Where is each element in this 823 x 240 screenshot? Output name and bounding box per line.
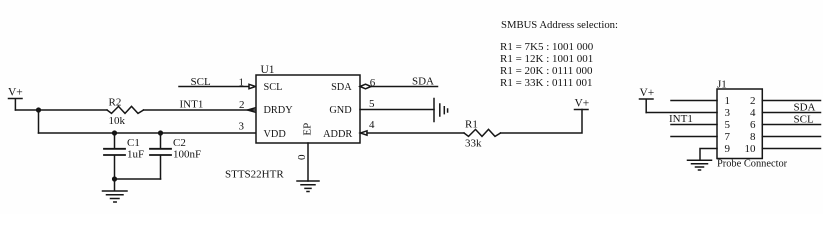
svg-text:R1 = 7K5 : 1001 000: R1 = 7K5 : 1001 000 <box>500 41 594 53</box>
wire J1 pin 4 (net SDA) <box>762 112 820 114</box>
svg-text:INT1: INT1 <box>669 113 693 125</box>
wire J1 pin 1 stub <box>671 100 717 102</box>
svg-text:1uF: 1uF <box>127 149 144 161</box>
svg-text:GND: GND <box>329 105 352 116</box>
ground (at J1 pin 9) <box>688 160 712 170</box>
svg-text:1: 1 <box>725 95 731 107</box>
wire V+ to J1 pin 3 <box>646 112 717 114</box>
svg-text:6: 6 <box>750 119 756 131</box>
wire J1 pin 2 stub <box>762 100 820 102</box>
wire C2 bottom to C1 bottom <box>115 178 161 180</box>
svg-text:R1: R1 <box>465 119 478 131</box>
wire VDD rail to U1 pin 3 <box>39 132 257 134</box>
svg-text:1: 1 <box>239 76 245 88</box>
node junction at C2 <box>158 130 163 135</box>
wire junction down to VDD rail <box>38 110 40 133</box>
svg-text:ADDR: ADDR <box>323 129 352 140</box>
svg-text:SCL: SCL <box>794 114 814 126</box>
svg-text:R2: R2 <box>109 97 122 109</box>
svg-text:SDA: SDA <box>412 75 434 87</box>
svg-text:8: 8 <box>750 131 756 143</box>
svg-text:33k: 33k <box>465 138 482 150</box>
svg-text:5: 5 <box>369 98 375 110</box>
node junction at V+ rail <box>36 107 41 112</box>
svg-text:V+: V+ <box>8 87 23 99</box>
node junction at C1 <box>112 130 117 135</box>
power V+ (at J1) <box>640 87 655 113</box>
svg-text:Probe Connector: Probe Connector <box>717 159 788 170</box>
svg-text:DRDY: DRDY <box>264 105 294 116</box>
wire ADDR to R1 <box>367 132 464 134</box>
svg-text:V+: V+ <box>575 98 590 110</box>
svg-text:STTS22HTR: STTS22HTR <box>225 169 284 181</box>
wire R1 to V+ <box>501 110 583 134</box>
wire R2 to U1 pin 2 <box>144 109 256 111</box>
svg-text:2: 2 <box>239 99 245 111</box>
ground (below U1 EP) <box>297 181 319 192</box>
pin 4 input arrow <box>361 131 368 135</box>
svg-text:4: 4 <box>750 107 756 119</box>
wire J1 pin 10 stub <box>762 148 820 150</box>
pin numbers J1 left column <box>725 95 731 155</box>
svg-text:R1 = 20K : 0111 000: R1 = 20K : 0111 000 <box>500 65 593 77</box>
node junction at C1 bottom <box>112 176 117 181</box>
IC U1 (STTS22HTR) box <box>256 75 360 143</box>
resistor R2 <box>107 106 144 113</box>
SMBUS address selection note <box>500 19 618 89</box>
connector J1 box <box>717 89 762 159</box>
svg-text:U1: U1 <box>261 64 275 76</box>
power V+ (left) <box>8 87 23 111</box>
wire INT1 to J1 pin 5 <box>671 124 717 126</box>
wire GND pin 5 to ground <box>360 109 434 111</box>
power V+ (at R1) <box>575 98 590 110</box>
svg-text:SDA: SDA <box>794 102 816 114</box>
svg-text:C1: C1 <box>127 137 140 149</box>
pin 6 bidirectional arrow <box>360 84 371 89</box>
pin numbers J1 right column <box>745 95 757 155</box>
svg-text:7: 7 <box>725 131 731 143</box>
svg-text:R1 = 12K : 1001 001: R1 = 12K : 1001 001 <box>500 53 593 65</box>
svg-text:2: 2 <box>750 95 756 107</box>
capacitor C1 <box>104 133 125 179</box>
capacitor C2 <box>150 133 171 179</box>
wire J1 pin 6 (net SCL) <box>762 124 820 126</box>
svg-text:SMBUS Address selection:: SMBUS Address selection: <box>501 19 618 31</box>
svg-text:SCL: SCL <box>191 76 211 88</box>
wire J1 pin 7 stub <box>671 136 717 138</box>
svg-text:3: 3 <box>239 120 245 132</box>
wire SCL stub to U1 pin 1 <box>179 86 249 88</box>
svg-text:5: 5 <box>725 119 731 131</box>
svg-text:C2: C2 <box>173 137 186 149</box>
svg-text:9: 9 <box>725 143 731 155</box>
pin 1 input arrow <box>249 84 256 88</box>
svg-text:10k: 10k <box>109 115 126 127</box>
svg-text:100nF: 100nF <box>173 149 201 161</box>
svg-text:VDD: VDD <box>264 129 287 140</box>
svg-text:SCL: SCL <box>264 82 283 93</box>
svg-text:J1: J1 <box>717 78 727 90</box>
svg-text:V+: V+ <box>640 87 655 99</box>
svg-text:R1 = 33K : 0111 001: R1 = 33K : 0111 001 <box>500 77 592 89</box>
svg-text:0: 0 <box>296 154 308 160</box>
resistor R1 <box>464 129 501 136</box>
ground (rotated, at pin 5) <box>434 99 448 122</box>
wire EP to ground <box>307 143 309 181</box>
wire J1 pin 9 to ground <box>700 149 717 161</box>
pin 2 output arrow <box>248 108 256 112</box>
svg-text:EP: EP <box>301 123 313 136</box>
wire V+ to R2 (net INT1) <box>16 109 108 111</box>
svg-text:4: 4 <box>369 119 375 131</box>
wire J1 pin 8 stub <box>762 136 820 138</box>
wire SDA stub from U1 pin 6 <box>371 86 438 88</box>
svg-text:10: 10 <box>745 143 757 155</box>
svg-text:INT1: INT1 <box>180 99 204 111</box>
svg-text:3: 3 <box>725 107 731 119</box>
svg-text:SDA: SDA <box>331 82 352 93</box>
ground (below C1/C2) <box>103 179 128 202</box>
